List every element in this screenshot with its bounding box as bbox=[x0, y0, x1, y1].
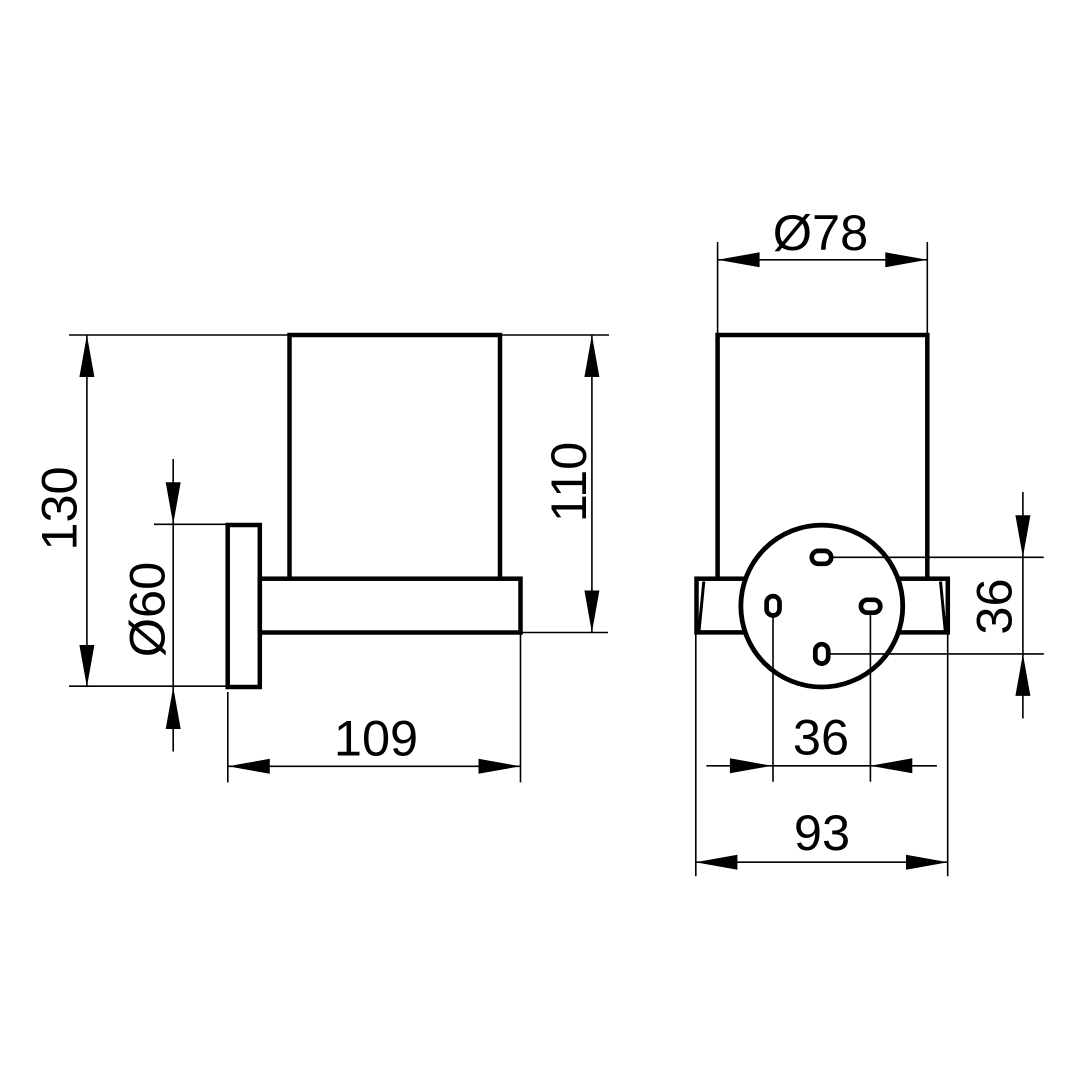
screw slot bottom bbox=[815, 644, 1044, 663]
dimension O60 line bbox=[166, 459, 181, 752]
wall rosette side view bbox=[228, 525, 260, 687]
dimension 110 line bbox=[584, 335, 599, 633]
holder plate side view bbox=[260, 579, 521, 633]
dimension 93 line bbox=[695, 855, 948, 870]
svg-text:36: 36 bbox=[966, 578, 1023, 634]
svg-text:110: 110 bbox=[540, 442, 597, 523]
svg-text:36: 36 bbox=[793, 709, 849, 766]
svg-text:Ø60: Ø60 bbox=[118, 562, 175, 657]
dimension 130 extension line top bbox=[69, 334, 609, 336]
dimension 130 line bbox=[79, 335, 94, 687]
dimension 36 vertical line bbox=[1015, 492, 1030, 719]
svg-text:93: 93 bbox=[794, 804, 850, 861]
dimension 93 extension line left bbox=[695, 635, 697, 877]
dimension O60 extension line top bbox=[154, 523, 228, 525]
holder plate chamfer right bbox=[941, 582, 946, 632]
svg-text:109: 109 bbox=[334, 710, 418, 767]
screw slot left bbox=[767, 596, 780, 782]
dimension 130 extension line bottom bbox=[69, 685, 260, 687]
dimension 93 extension line right bbox=[947, 635, 949, 877]
cup front view outline bbox=[718, 335, 928, 579]
dimension O78 extension line right bbox=[926, 242, 928, 335]
dimension 109 extension line left bbox=[227, 692, 229, 782]
dimension 109 line bbox=[228, 759, 521, 774]
dimension 109 extension line right bbox=[520, 633, 522, 783]
screw slot right bbox=[861, 600, 880, 782]
dimension 36 horizontal line bbox=[706, 758, 937, 773]
svg-text:Ø78: Ø78 bbox=[773, 204, 868, 261]
dimension 110 extension line bottom bbox=[521, 632, 609, 634]
cup side view outline bbox=[290, 335, 501, 579]
holder plate front view bbox=[697, 579, 948, 633]
holder plate chamfer left bbox=[699, 582, 704, 632]
svg-text:130: 130 bbox=[30, 466, 87, 550]
dimension O78 extension line left bbox=[717, 242, 719, 335]
dimension O78 line bbox=[718, 252, 928, 267]
screw slot top bbox=[812, 551, 1044, 564]
wall rosette front view circle bbox=[741, 525, 903, 687]
